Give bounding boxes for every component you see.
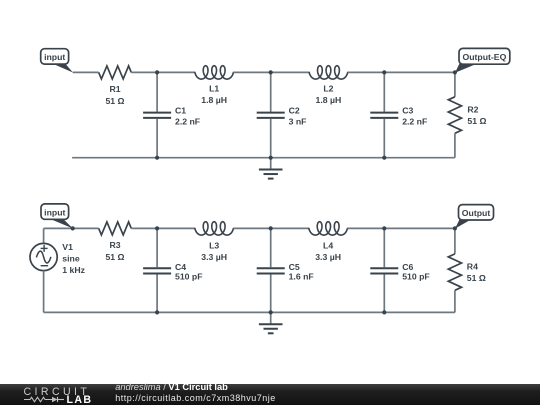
svg-text:51 Ω: 51 Ω bbox=[105, 96, 124, 106]
ground (top circuit) bbox=[259, 158, 283, 179]
svg-text:510 pF: 510 pF bbox=[175, 272, 203, 282]
svg-text:V1: V1 bbox=[62, 242, 73, 252]
resistor R3 bbox=[99, 222, 132, 235]
resistor R1 bbox=[99, 66, 132, 79]
junction C3-rail bbox=[382, 156, 386, 160]
svg-text:3 nF: 3 nF bbox=[289, 116, 307, 126]
resistor R4 bbox=[448, 254, 461, 290]
svg-text:L1: L1 bbox=[209, 83, 219, 93]
wire L3 to node E bbox=[233, 227, 270, 229]
svg-text:R3: R3 bbox=[109, 240, 120, 250]
svg-text:L3: L3 bbox=[209, 241, 219, 251]
wire node B to L2 bbox=[271, 71, 310, 73]
net flag &quot;input&quot; (top) bbox=[41, 49, 73, 73]
svg-text:2.2 nF: 2.2 nF bbox=[402, 116, 427, 126]
junction node A bbox=[155, 70, 159, 74]
svg-text:C5: C5 bbox=[289, 262, 300, 272]
svg-text:51 Ω: 51 Ω bbox=[467, 116, 486, 126]
inductor L4 bbox=[309, 222, 348, 235]
svg-text:input: input bbox=[44, 207, 65, 217]
svg-text:1.8 µH: 1.8 µH bbox=[316, 95, 342, 105]
svg-text:51 Ω: 51 Ω bbox=[105, 252, 124, 262]
capacitor C3 bbox=[370, 72, 398, 157]
wire L4 to node F bbox=[347, 227, 384, 229]
junction node C bbox=[382, 70, 386, 74]
resistor R2 bbox=[448, 97, 461, 134]
svg-text:1 kHz: 1 kHz bbox=[62, 265, 85, 275]
net flag &quot;Output&quot; bbox=[455, 205, 494, 229]
junction C2-rail-ground bbox=[269, 156, 273, 160]
svg-text:1.8 µH: 1.8 µH bbox=[201, 95, 227, 105]
junction C5-rail-ground bbox=[269, 310, 273, 314]
svg-text:R1: R1 bbox=[109, 84, 120, 94]
svg-text:C4: C4 bbox=[175, 262, 186, 272]
svg-text:L4: L4 bbox=[323, 241, 333, 251]
svg-text:2.2 nF: 2.2 nF bbox=[175, 116, 200, 126]
wire input to R1 bbox=[73, 71, 99, 73]
svg-text:510 pF: 510 pF bbox=[402, 272, 430, 282]
svg-text:sine: sine bbox=[62, 253, 80, 263]
svg-text:Output: Output bbox=[462, 208, 491, 218]
junction C6-rail bbox=[382, 310, 386, 314]
svg-text:C1: C1 bbox=[175, 106, 186, 116]
svg-text:input: input bbox=[44, 52, 65, 62]
svg-text:R4: R4 bbox=[467, 262, 478, 272]
svg-text:1.6 nF: 1.6 nF bbox=[289, 272, 314, 282]
bottom rail (bottom circuit) bbox=[44, 311, 455, 313]
bottom rail (top circuit) bbox=[72, 157, 455, 159]
voltage source V1 (sine) bbox=[30, 228, 57, 312]
junction node F bbox=[382, 226, 386, 230]
capacitor C4 bbox=[143, 228, 171, 312]
svg-text:3.3 µH: 3.3 µH bbox=[315, 252, 341, 262]
wire V1 to R3 bbox=[44, 227, 99, 229]
wire node C to output node bbox=[384, 71, 455, 73]
capacitor C6 bbox=[370, 228, 398, 312]
wire node E to L4 bbox=[271, 227, 309, 229]
svg-text:andreslima / V1 Circuit lab: andreslima / V1 Circuit lab bbox=[115, 382, 228, 392]
svg-text:L2: L2 bbox=[323, 83, 333, 93]
capacitor C2 bbox=[257, 72, 285, 157]
wire R1 to node A bbox=[131, 71, 157, 73]
svg-text:LAB: LAB bbox=[67, 394, 93, 405]
inductor L2 bbox=[309, 66, 348, 79]
junction C1-rail bbox=[155, 156, 159, 160]
svg-text:http://circuitlab.com/c7xm38hv: http://circuitlab.com/c7xm38hvu7nje bbox=[115, 393, 276, 403]
inductor L1 bbox=[195, 66, 234, 79]
footer bar bbox=[0, 384, 540, 405]
svg-text:C3: C3 bbox=[402, 106, 413, 116]
wire node D to L3 bbox=[157, 227, 195, 229]
net flag &quot;input&quot; (bottom) bbox=[41, 204, 73, 229]
wire L1 to node B bbox=[233, 71, 270, 73]
wire output node to R4 bbox=[454, 228, 456, 254]
junction output node (bottom) bbox=[453, 226, 457, 230]
wire node A to L1 bbox=[157, 71, 195, 73]
wire node F to output node bbox=[384, 227, 455, 229]
inductor L3 bbox=[195, 222, 234, 235]
capacitor C5 bbox=[257, 228, 285, 312]
wire R4 to bottom rail bbox=[454, 290, 456, 312]
junction node B bbox=[269, 70, 273, 74]
wire L2 to node C bbox=[348, 71, 385, 73]
junction output node bbox=[453, 70, 457, 74]
wire R2 to bottom rail bbox=[454, 133, 456, 157]
svg-text:51 Ω: 51 Ω bbox=[467, 273, 486, 283]
junction input flag tap bbox=[71, 226, 75, 230]
svg-text:R2: R2 bbox=[467, 105, 478, 115]
junction C4-rail bbox=[155, 310, 159, 314]
CircuitLab logo squiggle (resistor + diode) bbox=[24, 397, 64, 402]
junction node D bbox=[155, 226, 159, 230]
svg-text:3.3 µH: 3.3 µH bbox=[201, 252, 227, 262]
svg-text:C2: C2 bbox=[289, 106, 300, 116]
net flag &quot;Output-EQ&quot; bbox=[455, 48, 510, 72]
svg-text:C6: C6 bbox=[402, 262, 413, 272]
wire output node to R2 bbox=[454, 72, 456, 96]
ground (bottom circuit) bbox=[259, 312, 283, 333]
capacitor C1 bbox=[143, 72, 171, 157]
wire R3 to node D bbox=[131, 227, 157, 229]
svg-text:Output-EQ: Output-EQ bbox=[462, 52, 506, 62]
junction node E bbox=[269, 226, 273, 230]
